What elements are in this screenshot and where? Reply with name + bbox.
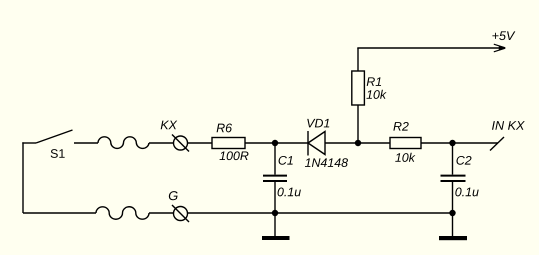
label G (169, 191, 178, 200)
label R1 (367, 77, 381, 86)
wire squiggle to connector KX (149, 142, 174, 144)
resistor R1 body (352, 71, 365, 105)
resistor R1 top lead (357, 48, 359, 71)
wire R6 to diode VD1 cathode through node C1 (245, 142, 308, 144)
label C2 (456, 156, 471, 165)
wire diode VD1 anode to R2 through node R1 (325, 142, 390, 144)
label KX (161, 121, 178, 130)
diode VD1 cathode bar (307, 131, 309, 156)
ground bar at C2 (439, 236, 467, 240)
capacitor C1 plates (263, 175, 287, 177)
capacitor C1 bottom lead (274, 181, 276, 213)
label 10k R2 (395, 153, 415, 162)
capacitor C2 bottom lead (452, 181, 454, 213)
label VD1 (307, 119, 329, 128)
+5V arrow barbs (494, 44, 506, 52)
+5V arrowhead (499, 46, 506, 51)
node junction C1 top (272, 140, 278, 146)
label 0.1u C1 (278, 188, 301, 197)
ground bar at C1 (262, 236, 290, 240)
wire left vertical (22, 142, 24, 213)
wire bottom rail left (23, 212, 96, 214)
connector G circle (174, 207, 188, 221)
node junction C1 bottom (272, 210, 278, 216)
wire switch stub (22, 142, 36, 144)
capacitor C2 plates (441, 175, 466, 177)
resistor R6 body (212, 138, 245, 149)
ground stem at C1 (274, 213, 276, 236)
wire squiggle to connector G (149, 212, 174, 214)
node junction C2 bottom (449, 210, 455, 216)
connector G slash (172, 205, 189, 222)
label S1 (51, 149, 65, 158)
label IN KX (492, 121, 525, 130)
resistor R2 body (390, 138, 421, 149)
IN KX terminal slash (490, 137, 504, 151)
node junction R1 bottom (355, 140, 361, 146)
inductor squiggle top rail (98, 137, 149, 149)
switch S1 blade (36, 130, 73, 143)
wire R2 to IN KX terminal through node C2 (421, 142, 498, 144)
wire connector G to node C2 bottom (188, 212, 453, 214)
wire +5V rail (357, 47, 502, 49)
label 0.1u C2 (455, 188, 478, 197)
capacitor C2 top lead (452, 143, 454, 175)
inductor squiggle bottom rail (96, 207, 149, 219)
connector KX slash (172, 135, 189, 152)
wire connector KX to R6 (188, 142, 213, 144)
label 10k R1 (366, 90, 386, 99)
label C1 (279, 156, 293, 165)
resistor R1 bottom lead (357, 105, 359, 143)
node junction C2 top (449, 140, 455, 146)
ground stem at C2 (452, 213, 454, 236)
diode VD1 triangle (308, 132, 325, 155)
label R2 (393, 122, 408, 131)
connector KX circle (174, 136, 188, 150)
label 1N4148 (305, 158, 348, 167)
label 100R (220, 151, 249, 160)
label +5V (492, 31, 515, 40)
label R6 (217, 124, 232, 133)
capacitor C1 top lead (274, 143, 276, 175)
wire top rail from switch to inductor (74, 142, 98, 144)
